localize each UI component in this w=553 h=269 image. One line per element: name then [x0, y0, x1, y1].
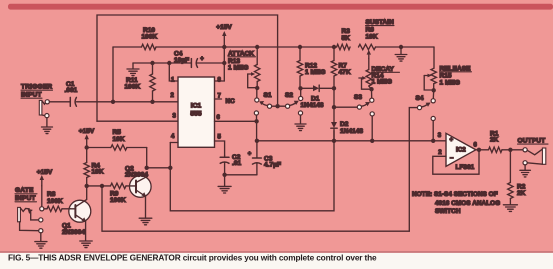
svg-text:100K: 100K	[142, 34, 158, 41]
ground C2 C3	[218, 175, 231, 193]
junction threshold/S3	[370, 139, 374, 143]
resistor R12 1 MEG	[297, 47, 325, 88]
junction D1/R7/D2	[332, 86, 336, 90]
magazine rule bottom (panel lower edge)	[0, 251, 553, 253]
jack TRIGGER INPUT	[21, 84, 53, 134]
op-amp IC2 LF361	[446, 133, 478, 171]
wire sustain rail to R15	[433, 47, 435, 68]
svg-text:IC1: IC1	[191, 103, 202, 110]
wire collector link to pin4 riser	[147, 166, 173, 170]
wire IC1 pin 3 label	[173, 113, 177, 119]
wire IC1 pin 6 stub	[215, 115, 257, 121]
wire base row	[87, 185, 111, 187]
wire threshold line	[257, 140, 446, 142]
wire IC1 pin 4 stub	[170, 134, 178, 143]
switch S1	[254, 88, 277, 115]
svg-text:+: +	[450, 136, 454, 143]
svg-text:+: +	[200, 57, 204, 63]
junction threshold/S4/IC2 pin3	[431, 133, 442, 143]
ground Q1	[80, 241, 92, 248]
svg-text:10µF: 10µF	[174, 57, 189, 64]
svg-text:100K: 100K	[110, 197, 126, 204]
wire pin6 node down to threshold line	[256, 121, 258, 141]
power +15V top	[216, 24, 232, 47]
junction R12/D1/S2	[298, 86, 302, 90]
junction S1/S2 common to 555 output	[275, 104, 279, 108]
transistor Q2 2N3904	[125, 165, 151, 218]
wire pin4 riser to D2 return	[170, 131, 334, 211]
capacitor C1 .001	[49, 81, 77, 106]
resistor R2 2K	[508, 150, 526, 205]
note S1-S4 sections	[412, 191, 500, 215]
junction C4 row / pin8 riser	[222, 61, 226, 65]
wire IC1 pin 8	[215, 63, 225, 84]
svg-text:1 MEG: 1 MEG	[305, 69, 325, 76]
junction threshold/D2	[332, 139, 336, 143]
resistor R11 100K	[125, 63, 156, 102]
svg-text:1N4148: 1N4148	[340, 128, 363, 135]
ground R2	[503, 205, 517, 212]
ground C4 row left	[127, 63, 139, 76]
svg-text:INPUT: INPUT	[21, 92, 42, 99]
svg-text:1 MEG: 1 MEG	[440, 79, 460, 86]
potentiometer R13 ATTACK 1 MEG	[228, 47, 260, 90]
svg-text:FIG. 5—THIS ADSR ENVELOPE GENE: FIG. 5—THIS ADSR ENVELOPE GENERATOR circ…	[8, 252, 377, 262]
wire IC1 pin 1	[169, 63, 178, 84]
wire +15V to C4 wire	[223, 47, 225, 63]
transistor Q1 2N3904	[62, 186, 91, 241]
junction +15V rail / R13	[255, 45, 259, 49]
svg-text:2K: 2K	[517, 190, 526, 197]
power +15V gate	[37, 169, 53, 186]
switch S2	[278, 88, 303, 115]
capacitor C3 4.7uF	[225, 141, 281, 175]
wire +15V to gate tip	[41, 186, 43, 207]
svg-text:3: 3	[438, 133, 442, 139]
jack GATE INPUT	[15, 187, 47, 248]
svg-text:+: +	[248, 152, 252, 158]
junction +15V rail / R12	[298, 45, 302, 49]
svg-text:.01: .01	[232, 160, 242, 167]
wire S4 common to gate rail	[409, 108, 417, 232]
wire IC1 pin 5 stub	[215, 134, 225, 155]
svg-text:10K: 10K	[113, 136, 125, 143]
svg-text:4016 CMOS ANALOG: 4016 CMOS ANALOG	[435, 200, 500, 207]
magazine rule top	[8, 4, 553, 10]
svg-text:47K: 47K	[339, 69, 351, 76]
potentiometer R14 DECAY 1 MEG	[359, 59, 400, 92]
svg-text:IC2: IC2	[456, 147, 466, 154]
svg-text:TRIGGER: TRIGGER	[21, 84, 52, 91]
svg-text:S1: S1	[264, 92, 272, 99]
svg-text:5K: 5K	[342, 35, 351, 42]
wire D1 node to S3	[332, 88, 358, 109]
wire S1 lower throw to pin 6	[254, 115, 258, 123]
jack OUTPUT	[518, 138, 549, 177]
resistor R9 100K	[110, 183, 130, 204]
potentiometer R6 SUSTAIN 10K	[359, 19, 395, 58]
wire 555 pin-3 stub	[97, 120, 178, 122]
svg-text:S4: S4	[416, 95, 424, 102]
svg-text:−: −	[450, 155, 454, 162]
junction +15V rail / R7	[332, 45, 336, 49]
svg-text:INPUT: INPUT	[15, 195, 36, 202]
svg-text:100K: 100K	[47, 198, 63, 205]
svg-text:SWITCH: SWITCH	[435, 208, 461, 215]
wire +15V rail segment right	[376, 46, 435, 48]
ground S2	[295, 115, 306, 131]
capacitor C4 10uF	[174, 51, 204, 68]
resistor R10 100K	[142, 27, 158, 50]
resistor R1 2K	[489, 130, 524, 152]
wire R10 left leg to trigger node	[112, 47, 114, 102]
wire trigger node to IC1 pin 2	[76, 93, 178, 102]
svg-text:.001: .001	[65, 87, 78, 94]
wire Q2 collector to R5	[145, 148, 149, 171]
svg-text:4.7µF: 4.7µF	[264, 161, 281, 168]
svg-text:NOTE: S1-S4 SECTIONS OF: NOTE: S1-S4 SECTIONS OF	[412, 191, 498, 198]
junction threshold/C3	[255, 139, 259, 143]
junction C4 row / R11	[150, 61, 154, 65]
junction +15V rail / C4 branch	[222, 45, 226, 49]
wire gate rail	[102, 186, 409, 231]
wire +15V rail segment mid	[156, 46, 337, 48]
junction sustain rail ground	[399, 45, 403, 49]
svg-text:10K: 10K	[92, 169, 104, 176]
junction R1/R2	[508, 148, 512, 152]
svg-text:2: 2	[438, 150, 442, 156]
junction R4/R9/Q1	[85, 184, 89, 188]
resistor R3 5K	[337, 28, 351, 50]
junction trigger/R10	[111, 100, 115, 104]
potentiometer R15 RELEASE 1 MEG	[424, 65, 471, 92]
svg-text:+15V: +15V	[216, 24, 232, 31]
svg-text:2N3904: 2N3904	[125, 171, 148, 178]
svg-text:S3: S3	[354, 94, 362, 101]
svg-text:1N4148: 1N4148	[301, 102, 324, 109]
svg-text:1 MEG: 1 MEG	[228, 65, 248, 72]
switch S4	[416, 90, 436, 120]
junction C4 row / pin1	[167, 61, 171, 65]
wire S4 lower throw to op-amp input	[432, 121, 434, 141]
power +15V mid	[79, 128, 95, 147]
junction trigger/R11	[150, 100, 154, 104]
svg-text:2K: 2K	[490, 136, 499, 143]
svg-text:100K: 100K	[125, 84, 141, 91]
junction output/feedback	[477, 148, 481, 152]
svg-text:10K: 10K	[366, 34, 378, 41]
svg-text:GATE: GATE	[15, 187, 34, 194]
junction R4/R5/+15V	[85, 145, 89, 149]
ground sustain rail	[395, 47, 407, 61]
svg-text:LF361: LF361	[456, 164, 475, 171]
wire C4 row	[133, 62, 224, 64]
diode D2 1N4148	[331, 107, 364, 141]
wire S3 lower throw to threshold line	[371, 116, 373, 141]
wire IC1 pin 7 NC	[215, 94, 236, 106]
svg-text:R6: R6	[366, 27, 375, 34]
capacitor C2 .01	[220, 154, 241, 175]
wire IC2 pin2 feedback	[433, 150, 479, 174]
svg-text:S2: S2	[285, 92, 293, 99]
wire IC2 output	[476, 149, 489, 151]
svg-text:+15V: +15V	[37, 169, 53, 176]
junction C2/C3 ground	[222, 173, 226, 177]
ground Q2	[139, 218, 152, 225]
svg-text:+15V: +15V	[79, 128, 95, 135]
svg-text:1 MEG: 1 MEG	[372, 79, 392, 86]
switch S3	[354, 89, 374, 116]
svg-text:2N3904: 2N3904	[62, 229, 85, 236]
wire 555 pin-3 output loop (left vertical and top rail to S1/S2 junction)	[97, 15, 278, 121]
svg-text:NC: NC	[226, 98, 236, 105]
junction gate rail tap	[100, 184, 104, 188]
IC IC1 555	[178, 77, 215, 147]
svg-text:OUTPUT: OUTPUT	[518, 138, 546, 145]
svg-text:D2: D2	[340, 121, 349, 128]
diode D1 1N4148	[301, 85, 335, 109]
svg-text:555: 555	[190, 111, 201, 118]
resistor R7 47K	[331, 47, 351, 88]
resistor R4 10K	[84, 148, 104, 186]
wire +15V rail segment left	[113, 46, 142, 48]
resistor R8 100K	[44, 191, 71, 211]
resistor R5 10K	[87, 129, 147, 150]
